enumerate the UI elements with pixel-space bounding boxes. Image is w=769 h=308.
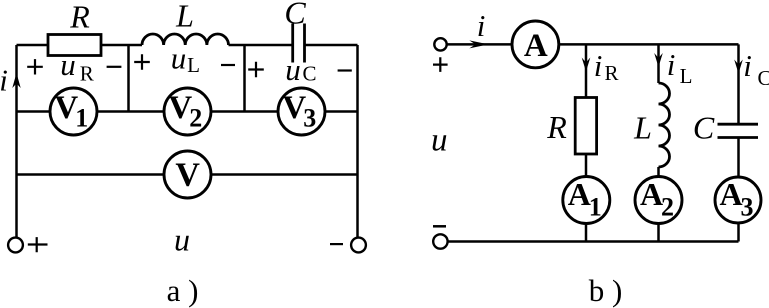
terminal - (circuit b)	[433, 234, 447, 248]
svg-text:A: A	[568, 176, 591, 212]
terminal + (circuit b)	[434, 38, 446, 50]
resistor R (circuit b)	[575, 98, 596, 155]
inductor L (circuit a)	[142, 34, 229, 45]
wire: A3 bottom stub	[737, 223, 740, 242]
svg-text:R: R	[80, 61, 94, 85]
capacitor C plates (circuit b)	[718, 124, 759, 137]
svg-text:1: 1	[75, 104, 88, 133]
resistor R (circuit a)	[48, 35, 101, 56]
plus sign bottom (circuit a)	[28, 237, 48, 252]
plus sign uL	[134, 54, 150, 69]
plus sign uR	[27, 59, 43, 74]
svg-text:R: R	[604, 61, 618, 85]
wire: C plates to A3	[737, 139, 740, 178]
minus sign uL	[221, 64, 235, 66]
svg-text:L: L	[633, 110, 652, 146]
ammeter A2 circle	[635, 177, 682, 224]
voltmeter V1 circle	[50, 88, 97, 135]
wire: junction drop between R and L	[127, 45, 130, 112]
wire: input segment circuit b	[447, 43, 512, 46]
svg-text:i: i	[667, 47, 676, 82]
svg-text:i: i	[594, 48, 603, 83]
plus sign top (circuit b)	[433, 57, 448, 72]
wire: R to L segment	[101, 44, 142, 47]
minus sign uC	[338, 69, 352, 71]
svg-text:u: u	[174, 222, 190, 258]
svg-text:i: i	[0, 63, 8, 98]
wire: R box to A1	[585, 154, 588, 177]
svg-text:L: L	[680, 64, 693, 88]
minus sign bottom (circuit a)	[330, 243, 343, 245]
wire: L branch top, circuit b	[657, 44, 660, 83]
svg-text:C: C	[284, 0, 306, 31]
current arrow iR (down)	[582, 58, 591, 72]
wire: L coil to A2	[657, 167, 660, 177]
svg-text:u: u	[171, 41, 187, 76]
svg-text:i: i	[743, 48, 752, 83]
minus bar above terminal - (circuit b)	[433, 225, 446, 228]
svg-text:3: 3	[303, 104, 316, 133]
svg-text:A: A	[719, 176, 742, 212]
wire: bottom row, circuit b	[448, 240, 739, 243]
wire: right vertical, circuit a	[356, 45, 359, 238]
wire: left vertical, circuit a	[15, 45, 18, 238]
voltmeter V2 circle	[164, 88, 211, 135]
svg-text:C: C	[693, 110, 715, 146]
svg-text:R: R	[69, 0, 90, 34]
svg-text:L: L	[175, 0, 194, 34]
svg-text:V: V	[175, 157, 200, 194]
wire: C to top right corner	[305, 44, 358, 47]
wire: R branch top, circuit b	[585, 44, 588, 97]
wire: V meter row, circuit a	[17, 173, 358, 176]
wire: A meter to right corner, circuit b	[559, 43, 739, 46]
plus sign uC	[248, 62, 264, 77]
minus sign uR	[107, 66, 122, 68]
svg-text:a ): a )	[167, 273, 199, 308]
wire: A1 bottom stub	[585, 224, 588, 242]
terminal - (circuit a)	[351, 238, 366, 253]
current arrow i (circuit b, right)	[469, 40, 488, 48]
terminal + (circuit a)	[8, 238, 23, 253]
current arrow i (circuit a, up)	[12, 73, 20, 88]
current arrow iL (down)	[654, 53, 663, 67]
ammeter A3 circle	[715, 177, 761, 223]
voltmeter V3 circle	[278, 88, 325, 135]
svg-text:C: C	[757, 66, 769, 90]
svg-text:i: i	[477, 8, 486, 43]
ammeter A1 circle	[563, 177, 610, 224]
svg-text:u: u	[431, 123, 448, 159]
voltmeter V circle	[164, 151, 211, 198]
ammeter A circle	[512, 21, 559, 68]
svg-text:1: 1	[589, 193, 602, 222]
svg-text:u: u	[285, 52, 301, 87]
svg-text:b ): b )	[589, 273, 623, 308]
wire: C branch top, circuit b	[737, 44, 740, 123]
svg-text:C: C	[302, 62, 316, 86]
svg-text:A: A	[640, 176, 663, 212]
svg-text:3: 3	[741, 193, 754, 222]
capacitor C plates (circuit a)	[293, 24, 305, 63]
svg-text:u: u	[60, 47, 76, 82]
svg-text:R: R	[546, 109, 567, 145]
svg-text:A: A	[524, 28, 548, 64]
inductor L (circuit b)	[659, 83, 670, 167]
svg-text:L: L	[187, 53, 200, 77]
wire: L to C segment	[229, 44, 293, 47]
svg-text:2: 2	[189, 104, 202, 133]
current arrow iC (down)	[734, 60, 743, 74]
svg-text:2: 2	[661, 193, 674, 222]
wire: A2 bottom stub	[657, 224, 660, 242]
wire: top left segment a	[17, 44, 49, 47]
wire: junction drop between L and C	[243, 45, 246, 112]
wire: voltmeter row, circuit a	[17, 110, 358, 113]
